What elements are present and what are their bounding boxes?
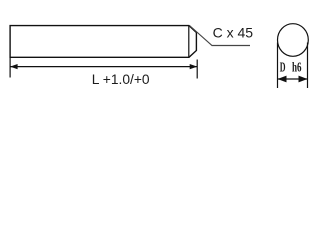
extension line right (dimension D) [307, 43, 309, 89]
arrowhead right (dimension D) [299, 76, 308, 83]
dimension line D [278, 78, 308, 80]
arrowhead left (dimension D) [278, 76, 287, 83]
svg-text:L +1.0/+0: L +1.0/+0 [92, 72, 150, 87]
arrowhead right (dimension L) [190, 64, 198, 69]
arrowhead left (dimension L) [10, 64, 18, 69]
leader line to chamfer note [190, 26, 251, 46]
end view circle (diameter D) [278, 24, 309, 57]
svg-text:D: D [280, 61, 286, 76]
svg-text:h6: h6 [292, 61, 302, 76]
dimension line L [10, 66, 197, 68]
pin body outline (side view with chamfered end) [10, 26, 196, 58]
chamfer edge line [188, 26, 190, 58]
extension line left (dimension L) [9, 57, 11, 78]
extension line left (dimension D) [277, 43, 279, 89]
extension line right (dimension L) [196, 60, 198, 79]
svg-text:C x 45: C x 45 [213, 24, 254, 40]
